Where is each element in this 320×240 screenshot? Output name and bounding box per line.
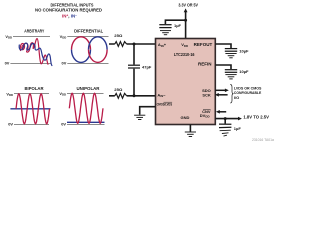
DIFFERENTIAL eye red top-left arc: [72, 37, 91, 50]
wire AIN- input: [109, 95, 156, 97]
DIFFERENTIAL eye blue top-right arc: [89, 37, 108, 50]
BIPOLAR blue mid line: [10, 108, 50, 110]
UNIPOLAR red sine: [69, 93, 103, 123]
capacitor C 1uF (VDD bypass): [159, 25, 171, 28]
svg-text:CMOS/LVDS: CMOS/LVDS: [157, 103, 173, 107]
svg-text:VDD: VDD: [181, 42, 188, 48]
wire REFIN to cap: [215, 65, 231, 69]
svg-text:25Ω: 25Ω: [114, 87, 123, 92]
svg-text:VDD: VDD: [5, 34, 12, 40]
ARBITRARY red waveform: [20, 39, 48, 65]
svg-text:LTC2310-16: LTC2310-16: [174, 52, 195, 57]
resistor R 25 ohm (top): [115, 42, 127, 47]
ARBITRARY 0V line: [10, 63, 51, 65]
wire GND pin: [189, 125, 191, 132]
capacitor C 47pF: [128, 44, 140, 96]
svg-text:0V: 0V: [8, 122, 13, 127]
DIFFERENTIAL 0V line: [67, 63, 108, 65]
BIPOLAR VDD line: [14, 93, 49, 95]
svg-text:10µF: 10µF: [239, 48, 249, 53]
svg-text:VDD: VDD: [6, 91, 13, 97]
BIPOLAR red sine: [16, 94, 50, 124]
wire CNV input arrow: [219, 111, 226, 113]
svg-text:IN+, IN−: IN+, IN−: [62, 13, 77, 18]
resistor R 25 ohm (bottom): [115, 93, 127, 98]
node junction AIN+: [133, 43, 136, 46]
brace I/O group: [230, 84, 233, 103]
svg-text:1.8V TO 2.5V: 1.8V TO 2.5V: [243, 115, 269, 120]
svg-text:VDD: VDD: [60, 34, 67, 40]
svg-text:UNIPOLAR: UNIPOLAR: [77, 86, 101, 91]
ground (VDD bypass): [160, 31, 171, 35]
BIPOLAR 0V line: [14, 124, 49, 126]
svg-text:REFOUT: REFOUT: [194, 42, 213, 47]
wire SDO output arrow: [215, 89, 225, 91]
svg-text:BIPOLAR: BIPOLAR: [25, 86, 45, 91]
svg-text:25Ω: 25Ω: [114, 33, 123, 38]
wire REFOUT to cap: [215, 44, 231, 48]
ground (CMOS/LVDS): [134, 115, 145, 119]
wire CMOS/LVDS to ground: [140, 107, 156, 115]
svg-text:AIN+: AIN+: [158, 42, 167, 48]
wire to bypass cap: [165, 20, 185, 24]
node junction AIN-: [133, 94, 136, 97]
svg-text:10µF: 10µF: [239, 69, 249, 74]
supply arrow: [184, 8, 188, 12]
svg-text:VDD: VDD: [59, 91, 66, 97]
UNIPOLAR VDD line: [67, 93, 104, 95]
ground (GND pin): [185, 132, 196, 137]
capacitor C 10uF (REFOUT): [225, 49, 237, 52]
UNIPOLAR 0V line: [67, 124, 105, 126]
svg-text:0V: 0V: [5, 61, 10, 66]
svg-text:NO CONFIGURATION REQUIRED: NO CONFIGURATION REQUIRED: [35, 8, 103, 13]
IC U1 LTC2310-16 body: [156, 39, 216, 125]
svg-text:AIN−: AIN−: [157, 93, 166, 99]
svg-text:47pF: 47pF: [142, 65, 152, 70]
svg-text:ARBITRARY: ARBITRARY: [24, 28, 44, 33]
svg-text:REFIN: REFIN: [198, 62, 212, 67]
wire SCK input arrow: [218, 94, 228, 96]
DIFFERENTIAL eye red bottom-right arc: [89, 50, 108, 63]
svg-text:SCK: SCK: [202, 92, 211, 97]
svg-text:231016 TA01a: 231016 TA01a: [252, 138, 274, 142]
svg-text:GND: GND: [181, 115, 190, 120]
DIFFERENTIAL VDD line: [67, 36, 108, 38]
ARBITRARY blue waveform: [19, 43, 52, 65]
ARBITRARY VDD line: [13, 36, 50, 38]
svg-text:DVDD: DVDD: [200, 113, 210, 119]
svg-text:0V: 0V: [62, 61, 67, 66]
svg-text:1µF: 1µF: [174, 23, 182, 28]
wire AIN+ input: [109, 43, 156, 45]
DIFFERENTIAL eye blue bottom-left arc: [72, 50, 91, 63]
svg-text:DIFFERENTIAL: DIFFERENTIAL: [74, 28, 103, 33]
svg-text:0V: 0V: [61, 122, 66, 127]
svg-text:1µF: 1µF: [234, 126, 242, 131]
svg-text:3.3V OR 5V: 3.3V OR 5V: [178, 3, 198, 8]
wire DVDD supply: [215, 118, 239, 120]
wire VDD supply: [185, 12, 187, 39]
overline on CNV: [203, 108, 211, 110]
ground (DVDD cap): [220, 130, 231, 136]
svg-text:I/O: I/O: [234, 95, 239, 100]
ground (REFOUT cap): [225, 54, 236, 58]
overline on LVDS: [164, 101, 173, 103]
wire DVDD junction to cap: [224, 119, 226, 124]
ground (REFIN cap): [225, 75, 236, 79]
node DVDD junction: [224, 117, 227, 120]
UNIPOLAR blue bottom line: [67, 121, 105, 123]
capacitor C 10uF (REFIN): [225, 70, 237, 73]
capacitor C 1uF (DVDD bypass): [219, 124, 231, 128]
node supply junction: [184, 19, 187, 22]
